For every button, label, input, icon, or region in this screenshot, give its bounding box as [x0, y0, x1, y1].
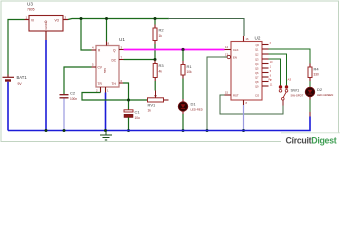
left pin CLK [225, 49, 232, 51]
wire VCC to R2 top [154, 19, 156, 25]
op 555 timer U1 [92, 37, 126, 93]
bottom pin VSS [243, 100, 245, 105]
wire 555 Q output (magenta) [124, 49, 225, 51]
svg-text:D1: D1 [191, 102, 197, 107]
svg-text:CLK: CLK [233, 48, 239, 52]
resistor R1 [181, 61, 192, 79]
wire VCC to 555 reset pin 4 [81, 19, 92, 51]
potentiometer RV1 [148, 91, 169, 113]
capacitor C1 [124, 110, 140, 121]
switch SW1 [269, 78, 304, 106]
svg-text:RV1: RV1 [148, 103, 156, 108]
wire R3 to RV1 wiper [154, 81, 156, 91]
svg-text:330: 330 [314, 73, 320, 77]
svg-text:1k: 1k [159, 34, 163, 38]
wire Q to R1 [182, 50, 184, 62]
svg-text:U3: U3 [27, 2, 33, 7]
svg-text:555: 555 [103, 68, 107, 73]
svg-text:4k: 4k [159, 70, 163, 74]
svg-text:SW-SPDT: SW-SPDT [291, 94, 304, 98]
svg-text:C2: C2 [70, 91, 76, 96]
wire VSS to bus (pale) [243, 105, 245, 131]
regulator U3 7805 [25, 2, 69, 41]
svg-text:1k: 1k [148, 109, 152, 113]
node junction VCC-R2 [154, 17, 157, 20]
wire U2 RST + VSS + switch common ground net [220, 95, 283, 114]
battery BAT1 [3, 75, 28, 87]
svg-text:TH: TH [112, 82, 117, 86]
svg-text:R4: R4 [314, 67, 320, 72]
svg-text:Q2: Q2 [255, 52, 259, 56]
LED D1 [178, 99, 203, 114]
left pin EN with bubble [225, 56, 228, 58]
svg-text:R2: R2 [159, 28, 165, 33]
resistor R3 [153, 61, 164, 82]
svg-text:U2: U2 [255, 36, 261, 41]
wire battery+ to U3 VI [8, 20, 25, 77]
wire R1 to D1 [182, 79, 184, 100]
capacitor C2 [60, 91, 78, 102]
left pin RST [225, 94, 232, 96]
svg-text:D2: D2 [317, 87, 323, 92]
svg-text:BAT1: BAT1 [17, 75, 28, 80]
svg-text:Q8: Q8 [255, 80, 259, 84]
wire U2 Q2 to switch right throw [269, 54, 287, 86]
node bus junctions [45, 129, 48, 132]
svg-text:Q1: Q1 [255, 47, 259, 51]
svg-text:SW1: SW1 [291, 88, 300, 93]
wire C1 to bus [128, 118, 130, 131]
node junction magenta-R1 [181, 48, 184, 51]
wire 555 CV to C2 [64, 67, 92, 94]
pin stubs [92, 49, 97, 51]
svg-text:Q9: Q9 [255, 84, 259, 88]
svg-text:Q5: Q5 [255, 66, 259, 70]
wire R4 to D2 [309, 81, 311, 87]
svg-text:C1: C1 [135, 110, 141, 115]
svg-text:Fn: Fn [269, 78, 273, 82]
svg-text:TR: TR [98, 82, 103, 86]
wire D2 down [309, 100, 311, 113]
wire R2 bottom to DC node [154, 44, 156, 61]
svg-text:EN: EN [233, 56, 237, 60]
svg-text:Q0: Q0 [256, 43, 260, 47]
wire U3 GND to bus (blue) [45, 40, 47, 131]
wire VCC top rail [68, 19, 169, 20]
border frame [1, 1, 339, 142]
right pins Q0-Q9 [262, 45, 269, 87]
wire 555 TR loop to threshold net [82, 93, 148, 101]
svg-text:CírcuitDigest: CírcuitDigest [286, 136, 337, 146]
wire D1 to bus [182, 114, 184, 131]
wire U2 Q1 to R4 [269, 49, 311, 64]
ground symbol [100, 131, 112, 141]
wire 555 DC to node [124, 59, 156, 61]
svg-text:7805: 7805 [27, 8, 35, 12]
svg-text:VI: VI [31, 18, 34, 22]
svg-text:U1: U1 [119, 37, 125, 42]
svg-text:DC: DC [112, 58, 117, 62]
svg-text:VO: VO [55, 18, 60, 22]
ground bus (blue) [8, 117, 310, 131]
svg-text:Q4: Q4 [255, 62, 259, 66]
wire 555 TH down to net [123, 83, 129, 110]
svg-text:LED-GREEN: LED-GREEN [317, 93, 333, 97]
svg-text:100n: 100n [70, 97, 77, 101]
svg-text:LED-RED: LED-RED [191, 108, 203, 112]
svg-text:Q7: Q7 [255, 75, 259, 79]
node junction VCC-reset [80, 17, 83, 20]
LED D2 [305, 87, 333, 100]
svg-text:R3: R3 [159, 63, 165, 68]
wire VCC to 555 pin 8 [106, 19, 108, 42]
node junction TH net [127, 99, 130, 102]
svg-text:R1: R1 [187, 64, 193, 69]
svg-text:10k: 10k [187, 70, 193, 74]
svg-text:GND: GND [44, 23, 48, 29]
svg-text:9V: 9V [18, 82, 23, 86]
svg-text:10u: 10u [135, 116, 141, 120]
resistor R2 [153, 25, 164, 45]
node junction DC [154, 58, 157, 61]
wire battery- to ground bus [7, 82, 9, 131]
svg-text:Q6: Q6 [255, 71, 259, 75]
svg-text:RST: RST [233, 94, 239, 98]
wire C2 to bus (pale) [63, 99, 65, 131]
node junction VCC-555 [105, 17, 108, 20]
top pin VDD [243, 36, 245, 42]
resistor R4 [308, 64, 319, 82]
CircuitDigest logo [281, 133, 340, 148]
wire U2 Q3 to switch left throw [269, 59, 281, 86]
wire 555 GND to bus (blue) [105, 93, 107, 131]
svg-text:Q3: Q3 [255, 57, 259, 61]
svg-text:A3: A3 [288, 78, 292, 82]
ic U2 counter [225, 36, 274, 106]
wire MCLR/EN to ground [207, 57, 227, 131]
